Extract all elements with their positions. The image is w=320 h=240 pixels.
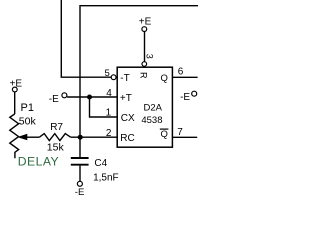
svg-text:Q: Q [161,73,168,84]
svg-text:-E: -E [75,187,85,198]
svg-text:D2A: D2A [144,103,163,114]
wire top rail to junction node [80,6,198,157]
terminal circle -E below C4 [77,181,82,186]
terminal circle +E left [12,87,17,92]
svg-text:50k: 50k [19,115,37,127]
svg-text:5: 5 [105,68,110,79]
capacitor C4 top plate [71,157,89,159]
svg-text:1,5nF: 1,5nF [93,172,119,183]
svg-text:3: 3 [144,54,154,59]
svg-text:15k: 15k [47,141,65,153]
IC U1 D2A 4538 monostable body [117,67,172,147]
junction node pin4/pin1 [87,95,92,100]
wire +E top supply drop [144,32,146,62]
svg-text:4538: 4538 [141,115,162,126]
svg-text:-T: -T [120,73,129,84]
svg-text:+E: +E [139,16,152,27]
svg-text:-E: -E [180,92,190,103]
capacitor C4 bottom plate [71,164,89,166]
svg-text:6: 6 [178,67,184,78]
svg-text:2: 2 [106,128,112,139]
wire -E to pin 4 [67,96,117,98]
svg-text:RC: RC [120,133,134,144]
svg-text:+T: +T [120,93,132,104]
svg-text:R7: R7 [50,122,63,133]
svg-text:+E: +E [10,78,23,89]
svg-text:R: R [139,72,149,79]
svg-text:-E: -E [49,94,59,105]
svg-text:1: 1 [106,108,112,119]
wire +E left supply to P1 [14,92,16,114]
wire C4 to -E [79,166,81,182]
wire pin4 node down to pin 1 [90,97,117,117]
svg-text:DELAY: DELAY [18,154,59,168]
wire R7 to pin 2 [71,136,117,138]
terminal circle -E right [192,91,197,96]
wire wiper to R7 [27,136,40,138]
svg-text:Q: Q [161,129,168,140]
resistor R7 [39,134,70,141]
pin 3 inverting bubble [142,62,147,67]
svg-text:7: 7 [177,127,183,138]
svg-text:CX: CX [121,113,135,124]
junction node R7/C4/pin2 [78,135,83,140]
potentiometer P1 [10,114,19,158]
svg-text:4: 4 [106,88,112,99]
wire pin 6 [172,76,197,78]
svg-text:P1: P1 [21,102,34,114]
terminal circle -E mid-left [62,93,67,98]
overline of Q-bar [160,129,169,130]
wire pin 7 [172,136,197,138]
wire from top edge to pin 5 [61,0,111,77]
pin 5 inverting bubble [111,75,116,80]
wiper arrow of P1 [17,134,27,141]
svg-text:C4: C4 [94,158,107,169]
terminal circle +E top [142,27,147,32]
